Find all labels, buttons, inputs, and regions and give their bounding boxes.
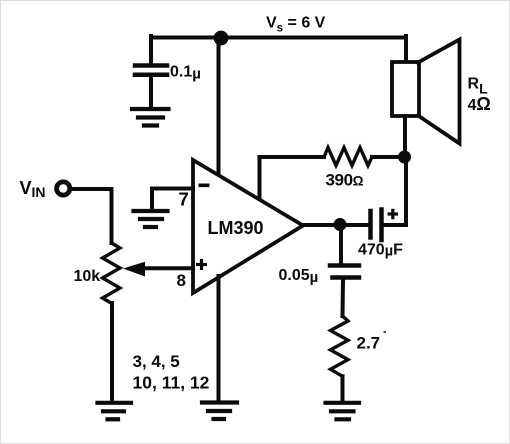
wire op-amp output — [301, 223, 368, 227]
ground at pin 7 — [134, 211, 168, 227]
speaker LS1 frame — [392, 62, 419, 116]
svg-text:Vs = 6 V: Vs = 6 V — [266, 15, 326, 35]
wire feedback horizontal left of R1 — [260, 155, 325, 159]
svg-text:2.7: 2.7 — [357, 334, 381, 353]
wire 0.05u to R3 — [341, 280, 346, 317]
wire pot bottom to ground — [110, 303, 114, 400]
speck near 2.7 — [384, 331, 387, 333]
wire top supply rail — [151, 36, 406, 40]
svg-text:390Ω: 390Ω — [326, 171, 364, 190]
svg-text:10k: 10k — [74, 268, 101, 285]
terminal VIN circle — [57, 182, 70, 195]
op-amp U1 triangle — [193, 160, 303, 293]
op-amp plus sign — [196, 259, 207, 270]
wire op-amp bottom pins to ground — [217, 276, 221, 400]
wire supply pin of U1 from rail — [217, 38, 221, 176]
wire R1 to node B — [372, 155, 400, 159]
svg-text:8: 8 — [177, 271, 186, 290]
svg-text:VIN: VIN — [20, 178, 46, 200]
svg-text:3, 4, 5: 3, 4, 5 — [133, 352, 180, 371]
op-amp minus sign — [199, 184, 210, 188]
svg-text:10, 11, 12: 10, 11, 12 — [133, 372, 210, 392]
potentiometer R2 10k zigzag — [103, 243, 121, 303]
wire VIN to pot top — [72, 189, 112, 243]
capacitor C1 0.1u plates — [135, 66, 167, 75]
svg-text:LM390: LM390 — [208, 218, 264, 238]
node C junction dot at output — [334, 218, 347, 231]
wire pin 7 to ground — [152, 189, 193, 210]
resistor R3 2.7 zigzag — [331, 316, 349, 376]
speaker LS1 horn — [418, 40, 460, 144]
wire rail right drop to speaker — [404, 36, 408, 63]
svg-text:0.05µ: 0.05µ — [279, 267, 319, 286]
capacitor C2 470uF plates — [371, 210, 382, 241]
wire rail left drop to 0.1u cap — [149, 36, 153, 64]
node B junction dot below speaker — [398, 151, 411, 164]
resistor R1 390 ohm zigzag — [324, 148, 372, 166]
ground below 0.1u cap — [132, 109, 169, 126]
ground at pins 3,4,5,10,11,12 — [202, 403, 237, 420]
wire node C to 0.05u cap — [339, 231, 343, 264]
wire feedback drop to op-amp top edge — [258, 157, 262, 199]
svg-text:0.1µ: 0.1µ — [170, 64, 201, 83]
wire R3 to ground — [341, 376, 345, 400]
capacitor C2 plus sign — [388, 209, 399, 220]
ground below R3 — [326, 403, 360, 420]
wire pin 8 to pot wiper — [140, 266, 193, 270]
wire speaker bottom to node — [403, 116, 407, 157]
ground below pot — [98, 403, 132, 420]
node A junction dot on supply rail — [214, 31, 229, 46]
svg-text:470µF: 470µF — [358, 242, 403, 260]
wire 0.1u cap to ground — [149, 76, 153, 107]
wire node B down to output cap corner — [384, 157, 406, 225]
svg-text:4Ω: 4Ω — [468, 94, 491, 114]
pot wiper arrowhead — [123, 262, 145, 277]
capacitor C3 0.05u plates — [330, 266, 359, 278]
svg-text:7: 7 — [179, 189, 189, 210]
